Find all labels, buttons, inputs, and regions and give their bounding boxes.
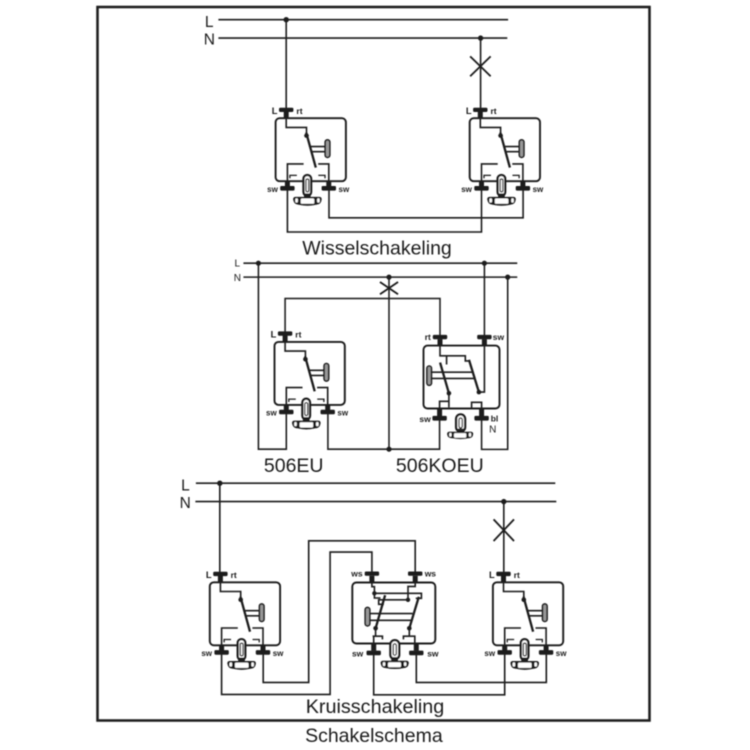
switch S6 kruisschakelaar — [350, 569, 439, 670]
wire N rail to S7 through lamp — [503, 502, 505, 572]
node lamp bottom — [386, 447, 391, 452]
svg-text:Wisselschakeling: Wisselschakeling — [302, 237, 452, 259]
wire S5 sw-left over to S6 ws-left — [222, 552, 372, 694]
N rail mid — [244, 276, 516, 278]
svg-text:N: N — [204, 32, 215, 49]
svg-text:506KOEU: 506KOEU — [396, 455, 484, 477]
wire S5 sw-right over to S6 ws-right — [263, 541, 415, 683]
switch S1 wisselschakelaar left — [267, 106, 350, 206]
wire N rail to S2 through lamp — [480, 38, 482, 108]
svg-text:N: N — [234, 273, 241, 284]
wire L down around to S3 sw-left — [258, 263, 286, 449]
svg-text:506EU: 506EU — [264, 455, 324, 477]
lamp X top — [471, 57, 490, 76]
switch S7 wisselschakelaar right — [484, 570, 567, 670]
N rail top — [219, 37, 506, 39]
wire L rail to S1 — [285, 20, 287, 108]
node on N rail — [478, 35, 483, 40]
node L-right — [482, 261, 487, 266]
svg-text:Kruisschakeling: Kruisschakeling — [306, 696, 445, 718]
wire S3 top to S4 rt — [285, 299, 440, 335]
node N-lamp — [386, 275, 391, 280]
switch S2 wisselschakelaar right — [461, 106, 544, 206]
svg-text:L: L — [181, 477, 190, 494]
L rail mid — [244, 262, 516, 264]
N rail bottom — [196, 501, 555, 503]
svg-text:L: L — [205, 14, 214, 31]
L rail top — [219, 19, 507, 21]
wire S3 sw-right to S4 sw-bottom — [328, 414, 440, 449]
svg-text:Schakelschema: Schakelschema — [305, 725, 443, 747]
wire sw-sw upper — [329, 191, 523, 218]
switch S3 506EU — [266, 330, 349, 430]
wire sw-sw lower — [287, 191, 481, 232]
node N-right — [505, 275, 510, 280]
switch S5 wisselschakelaar left — [201, 570, 284, 670]
lamp X mid — [381, 283, 398, 294]
wire S6 sw-right to S7 sw-right — [416, 655, 546, 683]
wire S4 bl to N rail — [482, 277, 508, 449]
lamp wire N down — [388, 277, 390, 449]
L rail bottom — [197, 482, 555, 484]
switch S4 506KOEU controleschakelaar — [419, 332, 504, 439]
wire S6 sw-left to S7 sw-left — [374, 655, 505, 695]
lamp X bottom — [494, 520, 513, 540]
border frame — [98, 7, 650, 721]
node L-left — [256, 261, 261, 266]
wire L rail to S5 — [219, 483, 221, 572]
wire L rail to S4 sw-top — [483, 263, 485, 335]
node on N rail — [501, 499, 506, 504]
svg-text:N: N — [180, 495, 191, 512]
svg-text:L: L — [234, 259, 240, 270]
node on L rail — [217, 481, 222, 486]
node on L rail — [284, 17, 289, 22]
